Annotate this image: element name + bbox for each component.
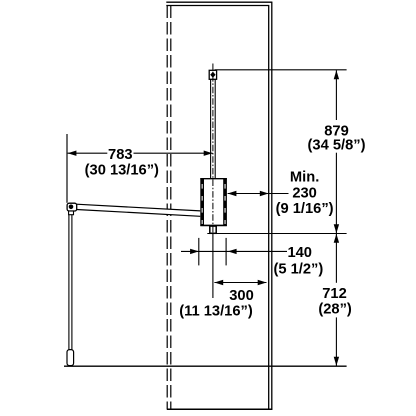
top extension line (rod cap to 879 dim) [215, 69, 347, 71]
rod cap [209, 70, 216, 79]
rod right line [214, 79, 216, 178]
140 left extension line [198, 238, 200, 266]
svg-text:300: 300 [229, 288, 254, 304]
dimension 140 right arrow (points left) [228, 249, 237, 254]
svg-text:(5 1/2”): (5 1/2”) [274, 261, 324, 277]
cabinet top outer line [166, 1, 272, 3]
svg-text:230: 230 [292, 186, 317, 202]
svg-text:783: 783 [108, 147, 133, 163]
dimension 879 line lower segment [335, 153, 337, 234]
svg-text:Min.: Min. [290, 169, 319, 185]
rod cap diamond [210, 72, 215, 78]
lift unit body fill [200, 178, 227, 226]
body right wall white dashes [224, 184, 226, 224]
dimension 879 down arrow [334, 224, 339, 233]
dimension 300 right arrow [258, 280, 267, 285]
body left wall bar [200, 178, 204, 226]
pull-down arm (white fill over dashed wall) [76, 204, 200, 217]
cabinet top inner line [166, 5, 269, 7]
svg-text:(11 13/16”): (11 13/16”) [179, 304, 253, 320]
cabinet bottom line [167, 408, 272, 410]
rod centerline dash-dot [212, 64, 214, 234]
cabinet left wall dashed outer [166, 6, 168, 410]
pivot dot [69, 205, 74, 210]
svg-text:(9 1/16”): (9 1/16”) [276, 201, 334, 217]
svg-text:(28”): (28”) [318, 301, 352, 317]
dimension 712 line lower segment [335, 317, 337, 365]
dimension 783 right arrow [204, 151, 213, 156]
rod left line [210, 79, 212, 178]
dimension 879 up arrow [334, 70, 339, 79]
svg-text:140: 140 [287, 245, 312, 261]
140 right extension line [225, 238, 227, 266]
dimension 140 left arrow (points right) [190, 249, 199, 254]
body left wall white dashes [201, 184, 203, 224]
pivot joint box [67, 203, 77, 211]
body right wall bar [223, 178, 227, 226]
dimension Min.230 leader line [228, 193, 289, 195]
svg-text:712: 712 [322, 286, 347, 302]
post foot [67, 350, 74, 366]
svg-text:(30 13/16”): (30 13/16”) [85, 163, 159, 179]
dimension 712 down arrow [334, 357, 339, 366]
svg-text:(34 5/8”): (34 5/8”) [308, 137, 366, 153]
dimension 879 line upper segment [335, 70, 337, 120]
dimension 140 line [181, 250, 287, 252]
cabinet left wall dashed inner [170, 6, 172, 410]
arm top edge [76, 204, 200, 211]
floor line [64, 365, 347, 367]
dimension Min.230 left arrow [228, 191, 237, 196]
body bottom line [200, 224, 227, 226]
body top line [200, 178, 227, 180]
arm bottom edge [76, 210, 200, 217]
pivot collar [69, 211, 74, 215]
post front line [68, 215, 70, 350]
dimension 783 line left segment [68, 152, 108, 154]
centerline below clamp [212, 234, 214, 298]
extension line above pivot post [66, 134, 68, 203]
cabinet right wall inner [268, 6, 270, 410]
cabinet right wall outer [271, 2, 273, 409]
dimension Min.230 right arrow [260, 191, 269, 196]
dimension 712 up arrow [334, 234, 339, 243]
dimension 300 line [214, 282, 266, 284]
clamp below body [210, 226, 216, 233]
dimension 783 line right segment [134, 152, 213, 154]
dimension 712 line upper segment [335, 234, 337, 283]
dimension 783 left arrow [68, 151, 77, 156]
middle extension line (body bottom to dims) [207, 233, 346, 235]
post rear line [71, 215, 73, 350]
dimension 300 left arrow [214, 280, 223, 285]
